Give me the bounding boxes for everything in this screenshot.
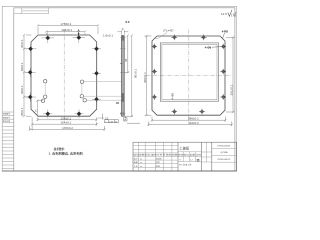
svg-text:84±0.1: 84±0.1 [20,62,24,71]
svg-text:138±0.1: 138±0.1 [60,116,71,120]
svg-text:178±0.1: 178±0.1 [61,22,72,26]
svg-text:6.3: 6.3 [126,20,130,24]
svg-text:4-R8: 4-R8 [222,29,229,33]
svg-text:35±0.1: 35±0.1 [20,107,24,116]
svg-text:技术要求:: 技术要求: [54,146,65,151]
svg-text:上盖板: 上盖板 [179,145,190,150]
svg-text:36±0.1: 36±0.1 [20,39,24,48]
svg-text:QZ33A: QZ33A [221,151,228,154]
svg-text:): ) [235,13,236,17]
svg-text:36±0.1: 36±0.1 [20,85,24,94]
svg-text:xx: xx [140,166,142,168]
svg-text:12.5: 12.5 [221,12,227,16]
svg-text:386±0.1: 386±0.1 [188,117,199,121]
svg-text:170±0.2: 170±0.2 [62,126,73,130]
svg-text:35: 35 [124,58,128,62]
svg-text:xx: xx [140,159,142,161]
svg-text:301±0.1: 301±0.1 [230,84,234,95]
svg-text:6.3: 6.3 [120,112,125,116]
svg-text:DZ08-0043-1: DZ08-0043-1 [218,159,232,161]
svg-text:xx: xx [140,162,142,164]
svg-text:154±0.1: 154±0.1 [60,121,71,125]
svg-text:4-Φ9: 4-Φ9 [205,45,212,49]
svg-text:1. 去毛刺棱边, 去净毛刺.: 1. 去毛刺棱边, 去净毛刺. [49,151,84,156]
svg-text:134±0.1: 134±0.1 [61,28,72,32]
svg-text:⊥: ⊥ [105,120,107,123]
svg-text:4-Φ5: 4-Φ5 [171,93,175,100]
svg-text:410±0.2: 410±0.2 [188,121,199,125]
svg-text:2*1×45°: 2*1×45° [163,29,175,33]
svg-text:工艺: 工艺 [134,165,138,168]
svg-text:1.6±0.1: 1.6±0.1 [103,34,113,38]
svg-text:A: A [124,118,126,122]
svg-text:90±0.1: 90±0.1 [134,69,138,78]
svg-text:300±0.1: 300±0.1 [143,72,147,83]
svg-text:DP08-0043/1: DP08-0043/1 [218,145,232,147]
svg-text:1.2: 1.2 [190,159,193,161]
